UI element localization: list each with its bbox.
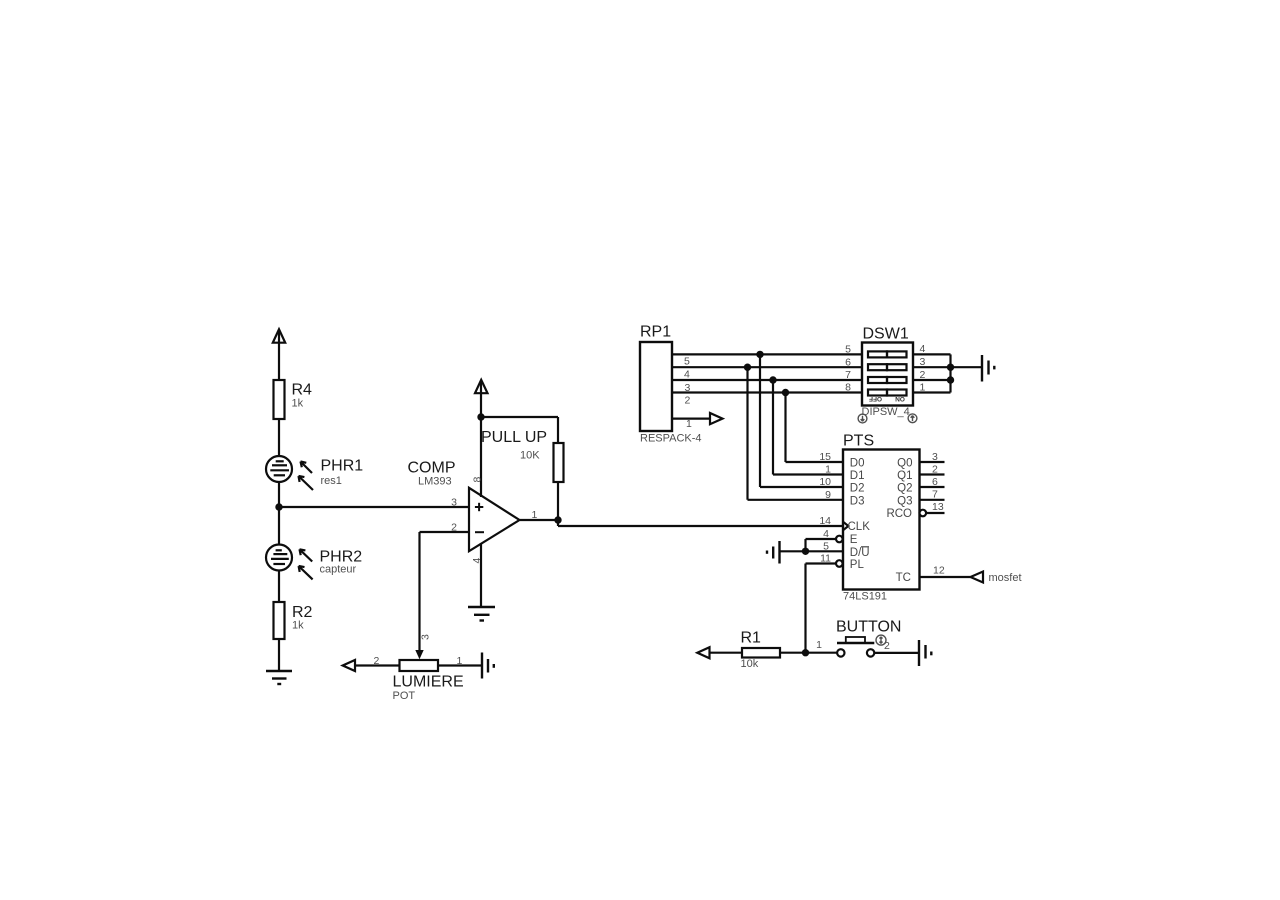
resistor PULL UP [554, 443, 564, 482]
svg-text:res1: res1 [321, 475, 342, 487]
svg-text:PHR1: PHR1 [321, 458, 364, 475]
DSW1 actuator circle up [908, 414, 917, 423]
svg-text:POT: POT [393, 690, 416, 702]
svg-text:PTS: PTS [843, 433, 874, 450]
svg-text:4: 4 [823, 528, 829, 540]
svg-text:PULL UP: PULL UP [481, 429, 547, 446]
svg-text:mosfet: mosfet [989, 572, 1022, 584]
svg-text:1: 1 [920, 381, 926, 393]
svg-text:1: 1 [825, 464, 831, 476]
wire Q3 [920, 499, 945, 501]
svg-text:74LS191: 74LS191 [843, 591, 887, 603]
wire RP1 pin1 [672, 418, 710, 420]
svg-text:D2: D2 [850, 483, 865, 495]
svg-text:DIPSW_4: DIPSW_4 [862, 406, 910, 418]
power symbol VCC (op-amp) [475, 380, 488, 417]
photoresistor PHR2 [266, 545, 313, 580]
RCO pin bubble [920, 510, 927, 517]
junction bus upper [947, 364, 954, 371]
svg-text:2: 2 [932, 463, 938, 475]
svg-text:3: 3 [685, 382, 691, 394]
terminal arrow pot pin 2 [343, 660, 355, 671]
svg-text:14: 14 [819, 515, 831, 527]
wire bus to ground [951, 366, 983, 368]
svg-text:11: 11 [820, 553, 831, 565]
DIP switch DSW1 box [862, 343, 913, 406]
wire VCC to pull-up [481, 417, 558, 443]
junction on line6 [744, 364, 751, 371]
wire op-amp pin 2 [420, 532, 470, 651]
svg-text:1k: 1k [292, 398, 304, 410]
junction at VCC op-amp [477, 413, 484, 420]
wire button to ground [874, 652, 919, 654]
wire E pin [806, 539, 837, 551]
svg-text:4: 4 [684, 369, 690, 381]
svg-text:COMP: COMP [408, 460, 456, 477]
wire Q2 [920, 486, 945, 488]
svg-text:DSW1: DSW1 [863, 326, 909, 343]
junction E to D/U [802, 548, 809, 555]
DSW1 switch row 4 [868, 390, 907, 396]
svg-text:8: 8 [472, 477, 484, 483]
svg-text:R1: R1 [741, 630, 762, 647]
wire drop to D2 [760, 354, 843, 487]
svg-text:D/U: D/U [850, 547, 870, 559]
DSW1 switch row 1 [868, 351, 907, 357]
svg-text:10K: 10K [520, 450, 540, 462]
svg-text:10: 10 [819, 476, 831, 488]
svg-text:RP1: RP1 [640, 324, 671, 341]
svg-text:3: 3 [451, 497, 457, 509]
svg-text:9: 9 [825, 489, 831, 501]
junction bus lower [947, 376, 954, 383]
wire R1 to button [780, 652, 837, 654]
svg-text:Q1: Q1 [897, 470, 912, 482]
svg-text:6: 6 [932, 476, 938, 488]
bus wire RP1 pin4 [672, 366, 862, 368]
overline on U [861, 546, 869, 548]
svg-text:D3: D3 [850, 495, 865, 507]
button knob [846, 637, 865, 643]
wire pot pin 1 [438, 664, 482, 666]
wire PHR2 to R2 [278, 571, 280, 603]
svg-text:1: 1 [532, 509, 538, 521]
bus wire RP1 pin2 [672, 391, 862, 393]
wire D/U pin [780, 550, 843, 552]
PL pin bubble [836, 560, 843, 567]
wire Q1 [920, 473, 945, 475]
svg-text:7: 7 [932, 488, 938, 500]
svg-text:Q3: Q3 [897, 495, 912, 507]
wire op-amp output pin 1 [520, 519, 558, 521]
junction PL drop [802, 649, 809, 656]
wire PHR1 to node A [278, 482, 280, 545]
junction on line8 [782, 389, 789, 396]
svg-text:TC: TC [896, 572, 911, 584]
junction on line7 [769, 376, 776, 383]
svg-text:LUMIERE: LUMIERE [393, 674, 464, 691]
svg-text:2: 2 [884, 640, 890, 652]
svg-text:2: 2 [374, 655, 380, 667]
DSW1 right wires [913, 354, 951, 392]
svg-text:E: E [850, 534, 858, 546]
svg-text:D1: D1 [850, 470, 865, 482]
wire RCO pin [926, 512, 944, 514]
wire drop to D0 [786, 393, 844, 463]
resistor R2 [274, 602, 285, 639]
svg-text:R2: R2 [292, 604, 313, 621]
svg-text:LM393: LM393 [418, 476, 452, 488]
ground (D/U, rotated left) [767, 541, 780, 564]
svg-text:5: 5 [823, 540, 829, 552]
svg-text:Q2: Q2 [897, 483, 912, 495]
svg-text:1: 1 [457, 655, 463, 667]
photoresistor PHR1 [266, 456, 313, 490]
svg-text:D0: D0 [850, 458, 865, 470]
resistor pack RP1 box [640, 342, 672, 431]
wire PL pin [806, 564, 837, 653]
svg-text:2: 2 [920, 369, 926, 381]
svg-text:10k: 10k [741, 658, 759, 670]
terminal arrow mosfet [971, 572, 984, 583]
svg-text:RESPACK-4: RESPACK-4 [640, 433, 702, 445]
op-amp minus sign [475, 531, 484, 533]
svg-text:1k: 1k [292, 620, 304, 632]
svg-text:8: 8 [845, 382, 851, 394]
svg-text:CLK: CLK [848, 521, 871, 533]
node A junction [275, 503, 282, 510]
resistor R4 [274, 380, 285, 419]
wire R4 to PHR1 [278, 419, 280, 456]
button bridge bar [837, 642, 874, 644]
bus wire RP1 pin5 [672, 353, 862, 355]
ground (op-amp) [468, 607, 495, 621]
DSW1 switch row 2 [868, 364, 907, 370]
wire Q0 [920, 461, 945, 463]
wire op-amp pin 4 [480, 543, 482, 607]
svg-text:15: 15 [819, 451, 831, 463]
output junction [554, 516, 561, 523]
DSW1 switch row 3 [868, 377, 907, 383]
wire pin 8 [480, 417, 482, 497]
svg-text:R4: R4 [292, 382, 313, 399]
junction on line5 [756, 351, 763, 358]
wiper arrow into pot [415, 650, 423, 659]
svg-text:2: 2 [685, 394, 691, 406]
svg-text:2: 2 [451, 522, 457, 534]
potentiometer LUMIERE body [400, 660, 439, 671]
ground (pot, rotated) [482, 653, 494, 679]
svg-text:RCO: RCO [886, 508, 912, 520]
terminal arrow R1 left [697, 647, 709, 658]
svg-text:3: 3 [932, 451, 938, 463]
svg-text:BUTTON: BUTTON [836, 619, 901, 636]
svg-text:1: 1 [686, 418, 692, 430]
ground (DSW1, rotated) [982, 355, 994, 382]
ground (left branch) [266, 671, 292, 684]
wire node A to op-amp pin 3 [279, 506, 469, 508]
svg-text:5: 5 [684, 356, 690, 368]
svg-text:PL: PL [850, 559, 865, 571]
counter IC PTS box [843, 450, 920, 590]
svg-text:7: 7 [845, 369, 851, 381]
DSW1 right bus vertical [949, 354, 951, 392]
resistor R1 [742, 648, 780, 658]
wire drop to D1 [773, 380, 843, 475]
svg-text:3: 3 [420, 634, 432, 640]
CLK edge triangle [843, 522, 848, 531]
wire output to CLK [558, 525, 843, 527]
op-amp plus sign [475, 503, 483, 511]
svg-text:Q0: Q0 [897, 458, 912, 470]
wire pot pin 2 [355, 664, 400, 666]
svg-text:4: 4 [920, 343, 926, 355]
terminal arrow RP1 pin1 [710, 413, 723, 424]
DSW1 actuator circle down [858, 414, 867, 423]
button actuator circle [876, 635, 886, 645]
svg-text:1: 1 [816, 639, 822, 651]
svg-text:capteur: capteur [320, 564, 357, 576]
wire TC [920, 576, 971, 578]
bus wire RP1 pin3 [672, 379, 862, 381]
wire pull-up to output node [557, 482, 559, 526]
power symbol VCC (left branch) [273, 329, 285, 380]
E pin bubble [836, 536, 843, 543]
svg-text:5: 5 [845, 344, 851, 356]
svg-text:3: 3 [920, 356, 926, 368]
svg-text:13: 13 [932, 501, 944, 513]
svg-text:OFF: OFF [869, 395, 882, 402]
button BUTTON pin circles [837, 649, 874, 656]
wire drop to D3 [748, 367, 844, 500]
svg-text:6: 6 [845, 356, 851, 368]
svg-text:12: 12 [933, 565, 945, 577]
ground (button, rotated) [919, 640, 931, 666]
op-amp U COMP triangle [469, 488, 520, 551]
svg-text:4: 4 [471, 558, 483, 564]
wire R2 to ground [278, 639, 280, 671]
wire arrow to R1 [710, 652, 743, 654]
svg-text:ON: ON [895, 395, 905, 402]
